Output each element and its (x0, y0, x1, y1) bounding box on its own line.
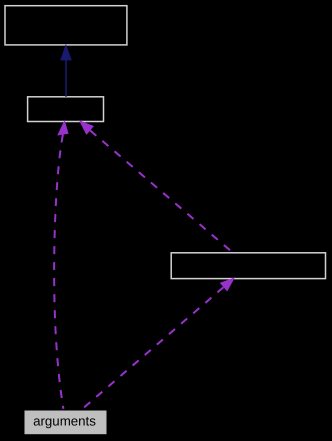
svg-text:arguments: arguments (33, 414, 96, 429)
